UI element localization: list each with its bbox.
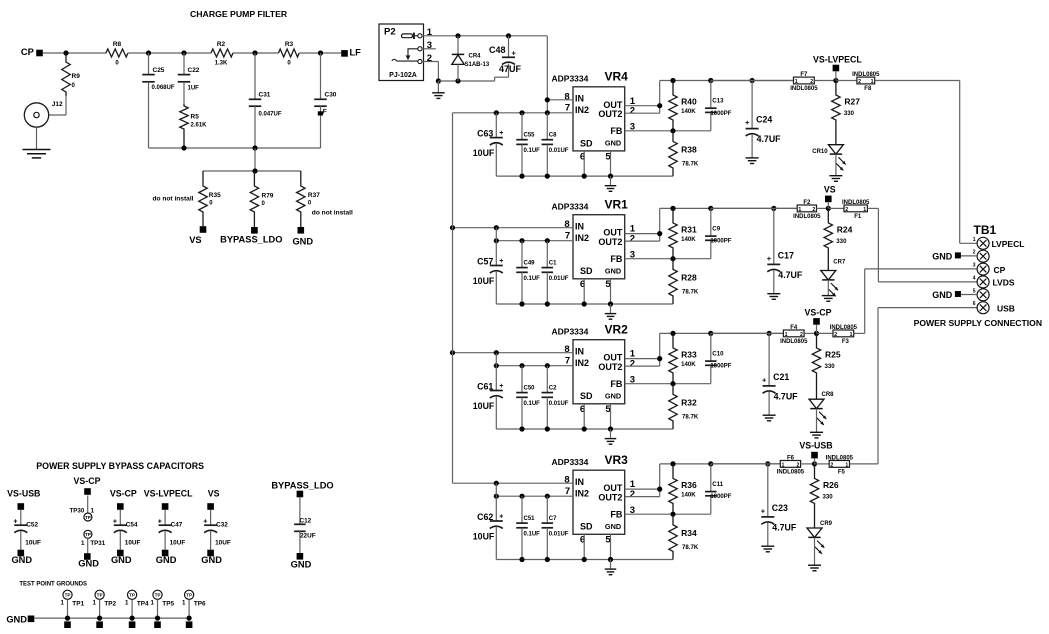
- net GND flag: [298, 227, 305, 234]
- svg-text:SD: SD: [580, 266, 593, 276]
- svg-text:USB: USB: [997, 304, 1015, 314]
- node rail C21: [767, 331, 772, 336]
- svg-text:10UF: 10UF: [25, 539, 41, 546]
- node FB junction: [670, 256, 675, 261]
- svg-text:TP1: TP1: [72, 601, 84, 608]
- svg-text:GND: GND: [201, 555, 222, 565]
- svg-text:R26: R26: [823, 480, 839, 490]
- wire VR1 FB: [625, 258, 711, 260]
- wire VR1 output rail: [660, 207, 798, 209]
- inductor F8 INDL0805: [857, 77, 875, 84]
- svg-text:2: 2: [858, 79, 861, 85]
- svg-text:1: 1: [782, 463, 785, 469]
- wire VR4 IN2 pin7: [453, 112, 574, 114]
- svg-text:C61: C61: [477, 381, 493, 391]
- wire VR2 FB: [625, 383, 711, 385]
- svg-text:2: 2: [830, 463, 833, 469]
- svg-text:C49: C49: [524, 260, 536, 266]
- svg-text:330: 330: [825, 363, 836, 370]
- wire P2 pin1 to C48 node: [422, 35, 547, 37]
- node rail C51: [519, 557, 524, 562]
- resistor R36 140K: [669, 464, 677, 514]
- svg-text:1: 1: [850, 332, 853, 338]
- svg-text:+: +: [158, 519, 162, 526]
- svg-text:0.047UF: 0.047UF: [259, 112, 282, 118]
- terminal square TP4: [129, 621, 136, 628]
- svg-text:GND: GND: [78, 559, 99, 569]
- capacitor C7 0.01UF: [546, 496, 548, 523]
- svg-text:1: 1: [182, 599, 186, 606]
- net BYPASS_LDO flag: [251, 227, 258, 234]
- resistor R8: [106, 49, 128, 57]
- capacitor C2 0.01UF: [546, 366, 548, 393]
- resistor R27 330: [832, 81, 840, 145]
- wire VR4 OUT pins to rail: [625, 105, 660, 107]
- svg-text:0.01UF: 0.01UF: [549, 401, 569, 407]
- capacitor C21 4.7UF: [768, 333, 770, 386]
- svg-text:INDL0805: INDL0805: [852, 72, 880, 78]
- node VR2 IN2 junction 3: [545, 363, 550, 368]
- svg-text:2: 2: [845, 207, 848, 213]
- svg-text:C31: C31: [259, 92, 271, 99]
- svg-text:GND: GND: [6, 615, 27, 625]
- capacitor C54 10UF: [119, 510, 121, 525]
- svg-text:5: 5: [973, 288, 976, 294]
- svg-text:7: 7: [565, 486, 570, 497]
- resistor R32 78.7K: [669, 384, 677, 429]
- node rail C50: [519, 426, 524, 431]
- wire F6 to VS node: [801, 463, 815, 465]
- net flag GND C52: [20, 531, 22, 550]
- resistor R28 78.7K: [669, 259, 677, 304]
- node at R9 top: [63, 50, 68, 55]
- wire VS node to F8: [836, 80, 857, 82]
- svg-text:GND: GND: [291, 560, 312, 570]
- svg-text:0.1UF: 0.1UF: [524, 276, 541, 282]
- node VR3 IN2 junction 3: [545, 494, 550, 499]
- svg-text:1: 1: [125, 599, 129, 606]
- node VR2 IN cap junction: [494, 350, 499, 355]
- node CR4 bottom: [455, 78, 460, 83]
- svg-text:+: +: [761, 506, 766, 515]
- svg-text:R5: R5: [191, 114, 200, 121]
- node VS VR4: [833, 78, 838, 83]
- svg-text:R31: R31: [681, 224, 697, 234]
- svg-text:BYPASS_LDO: BYPASS_LDO: [220, 234, 282, 244]
- test point TP1: [63, 590, 72, 599]
- node rail C49: [519, 301, 524, 306]
- TB1 pin 4 terminal: [977, 276, 989, 288]
- capacitor C61 10UF: [495, 353, 497, 391]
- capacitor C52 10UF: [20, 510, 22, 525]
- wire F2 to VS node: [817, 207, 829, 209]
- wire R3 to LF: [299, 52, 341, 54]
- svg-text:BYPASS_LDO: BYPASS_LDO: [271, 481, 333, 491]
- node VR1 IN2 junction 2: [519, 238, 524, 243]
- svg-text:1: 1: [973, 237, 976, 243]
- svg-text:2: 2: [973, 250, 976, 256]
- node C48 top: [506, 33, 511, 38]
- svg-text:INDL0805: INDL0805: [780, 339, 808, 345]
- svg-text:R37: R37: [308, 192, 320, 199]
- node rail C7: [545, 557, 550, 562]
- terminal square TP6: [186, 621, 193, 628]
- svg-text:C22: C22: [188, 67, 200, 74]
- svg-text:10UF: 10UF: [170, 539, 186, 546]
- node FB junction: [670, 128, 675, 133]
- node VR2 IN2 junction 1: [494, 363, 499, 368]
- capacitor C23 4.7UF: [767, 464, 769, 517]
- svg-text:C10: C10: [712, 350, 724, 357]
- capacitor C11 1000PF: [710, 464, 712, 492]
- node rail C24: [750, 78, 755, 83]
- node rail R36: [670, 461, 675, 466]
- svg-text:do not install: do not install: [152, 196, 193, 203]
- svg-text:GND: GND: [292, 236, 313, 246]
- svg-text:S1AB-13: S1AB-13: [465, 62, 490, 68]
- wire filter bottom rail: [149, 147, 321, 149]
- svg-text:CR4: CR4: [469, 54, 482, 60]
- inductor F7 INDL0805: [794, 77, 815, 84]
- svg-text:IN: IN: [575, 94, 584, 104]
- inductor F4 INDL0805: [783, 330, 804, 337]
- svg-text:C52: C52: [26, 522, 38, 529]
- svg-text:78.7K: 78.7K: [682, 288, 699, 295]
- node rail R40: [670, 78, 675, 83]
- LED CR7: [821, 271, 836, 280]
- svg-text:SD: SD: [580, 391, 593, 401]
- svg-text:C17: C17: [778, 250, 794, 260]
- node rail C17: [771, 206, 776, 211]
- net VS flag: [200, 226, 207, 233]
- svg-text:+: +: [203, 519, 207, 526]
- P2 pin 3 switch contact: [418, 47, 422, 51]
- ground of VR3: [610, 560, 612, 569]
- resistor R35: [199, 171, 207, 226]
- svg-text:10UF: 10UF: [473, 276, 495, 286]
- svg-text:IN2: IN2: [575, 358, 589, 368]
- svg-text:8: 8: [564, 475, 569, 486]
- svg-text:INDL0805: INDL0805: [777, 469, 805, 475]
- svg-text:1: 1: [795, 79, 798, 85]
- svg-text:0.1UF: 0.1UF: [524, 148, 541, 154]
- test point TP5: [153, 590, 162, 599]
- svg-text:CR7: CR7: [833, 260, 846, 266]
- svg-text:R2: R2: [217, 41, 226, 48]
- svg-text:C48: C48: [489, 45, 506, 55]
- svg-text:C63: C63: [477, 129, 493, 139]
- node rail C1: [545, 301, 550, 306]
- wire VR4 FB: [625, 130, 711, 132]
- node rail C9: [708, 206, 713, 211]
- svg-text:2: 2: [630, 489, 635, 500]
- svg-text:R40: R40: [681, 97, 697, 107]
- node FB junction: [670, 512, 675, 517]
- resistor R40 140K: [669, 81, 677, 131]
- net flag GND C12: [299, 531, 301, 553]
- wire VS node to F5: [815, 463, 830, 465]
- svg-text:+: +: [13, 519, 17, 526]
- svg-text:8: 8: [564, 219, 569, 230]
- svg-text:TP: TP: [97, 593, 103, 598]
- ground of CR9: [814, 537, 816, 565]
- svg-text:GND: GND: [605, 266, 621, 275]
- svg-text:OUT2: OUT2: [598, 362, 622, 372]
- node rail pin5: [608, 557, 613, 562]
- svg-text:ADP3334: ADP3334: [552, 457, 589, 467]
- node VR3 IN2 junction 2: [519, 494, 524, 499]
- capacitor C50 0.1UF: [521, 366, 523, 393]
- svg-text:1: 1: [785, 332, 788, 338]
- capacitor C57 10UF: [495, 228, 497, 266]
- svg-text:TP: TP: [85, 515, 91, 520]
- svg-text:F6: F6: [787, 455, 795, 461]
- svg-text:LVPECL: LVPECL: [992, 239, 1025, 249]
- svg-text:2: 2: [797, 463, 800, 469]
- wire VR2 ground rail: [496, 428, 673, 430]
- node VR4 IN2 C63: [494, 110, 499, 115]
- node rail pin6: [582, 301, 587, 306]
- svg-text:78.7K: 78.7K: [682, 413, 699, 420]
- resistor R9: [62, 53, 70, 96]
- wire R8 to R2: [128, 52, 211, 54]
- wire rail to F4: [711, 332, 784, 334]
- TB1 pin 2 terminal: [977, 250, 989, 262]
- node C30 top: [318, 50, 323, 55]
- node VR1 IN2 junction 1: [494, 238, 499, 243]
- node rail C2: [545, 426, 550, 431]
- wire VR1 ground rail: [496, 303, 673, 305]
- wire CP to R8: [43, 52, 106, 54]
- svg-text:R33: R33: [681, 349, 697, 359]
- TB1 pin 5 terminal: [977, 289, 989, 301]
- connector J12: [24, 103, 48, 127]
- svg-text:GND: GND: [605, 522, 621, 531]
- svg-text:2: 2: [630, 233, 635, 244]
- svg-text:F: F: [323, 109, 327, 116]
- node rail TP2: [97, 616, 102, 621]
- node VR2 OUT junction: [657, 356, 662, 361]
- svg-text:F2: F2: [803, 200, 811, 206]
- svg-text:R27: R27: [844, 97, 860, 107]
- svg-text:IN: IN: [575, 346, 584, 356]
- node VR1 IN bus junction: [450, 225, 455, 230]
- svg-text:OUT2: OUT2: [598, 109, 622, 119]
- capacitor C22 1UF: [183, 53, 185, 75]
- svg-text:7: 7: [565, 355, 570, 366]
- svg-text:TP: TP: [65, 593, 71, 598]
- node VR4 IN2 C8: [545, 110, 550, 115]
- svg-text:INDL0805: INDL0805: [830, 325, 858, 331]
- svg-text:R9: R9: [72, 73, 81, 80]
- svg-text:140K: 140K: [681, 361, 696, 368]
- resistor R33 140K: [669, 333, 677, 383]
- svg-text:C62: C62: [477, 512, 493, 522]
- svg-text:C1: C1: [549, 260, 557, 266]
- test point TP2: [95, 590, 104, 599]
- wire input supply bus vertical: [452, 113, 454, 483]
- resistor R25 330: [812, 333, 820, 399]
- svg-text:1000PF: 1000PF: [710, 111, 731, 117]
- svg-text:TP: TP: [85, 532, 91, 537]
- net flag VS-USB: [811, 452, 818, 459]
- svg-text:0.01UF: 0.01UF: [549, 148, 569, 154]
- node C31 top: [252, 50, 257, 55]
- P2 pin 1 barrel contact: [402, 34, 413, 38]
- svg-text:POWER SUPPLY CONNECTION: POWER SUPPLY CONNECTION: [914, 318, 1042, 328]
- net flag VS-LVPECL: [833, 65, 840, 72]
- svg-text:INDL0805: INDL0805: [826, 455, 854, 461]
- svg-text:VS-LVPECL: VS-LVPECL: [144, 489, 193, 499]
- svg-text:VS-USB: VS-USB: [7, 489, 40, 499]
- svg-text:TP5: TP5: [162, 601, 174, 608]
- net flag VS: [825, 196, 832, 203]
- resistor R2 1.3K: [211, 49, 233, 57]
- node rail TP5: [155, 616, 160, 621]
- svg-text:TP2: TP2: [104, 601, 116, 608]
- resistor R37: [297, 171, 305, 227]
- LED CR9: [807, 528, 822, 537]
- TB1 pin 6 terminal: [977, 302, 989, 314]
- wire bottom rail CR4 C48: [438, 80, 494, 82]
- svg-text:VS: VS: [189, 235, 201, 245]
- diode CR4 S1AB-13: [457, 36, 459, 55]
- svg-text:4.7UF: 4.7UF: [757, 134, 782, 144]
- svg-text:TEST POINT GROUNDS: TEST POINT GROUNDS: [19, 582, 87, 588]
- node rail TP6: [187, 616, 192, 621]
- capacitor C63 10UF: [495, 113, 497, 138]
- capacitor C25 0.068UF: [148, 53, 150, 75]
- svg-text:1: 1: [81, 540, 85, 547]
- wire R9 to J12: [65, 96, 67, 115]
- svg-text:F7: F7: [800, 72, 808, 78]
- wire VR2 feed to terminal block: [854, 332, 865, 334]
- svg-text:8: 8: [564, 91, 569, 102]
- svg-text:1000PF: 1000PF: [710, 364, 731, 370]
- node rail C22: [181, 145, 186, 150]
- svg-text:VR1: VR1: [605, 197, 629, 211]
- node rail C8: [545, 174, 550, 179]
- svg-text:0.068UF: 0.068UF: [152, 85, 175, 91]
- svg-text:1: 1: [91, 508, 95, 515]
- svg-text:TP: TP: [155, 593, 161, 598]
- inductor F1 INDL0805: [844, 205, 867, 212]
- node VR2 IN bus junction: [450, 350, 455, 355]
- resistor R38 78.7K: [669, 131, 677, 176]
- svg-text:TP4: TP4: [137, 601, 149, 608]
- svg-text:2: 2: [630, 358, 635, 369]
- svg-text:47UF: 47UF: [499, 64, 522, 74]
- op-amp regulator VR1 ADP3334 box: [573, 215, 625, 279]
- wire VR4 feed to terminal block: [875, 80, 960, 82]
- node rail C55: [519, 174, 524, 179]
- svg-text:7: 7: [565, 103, 570, 114]
- svg-text:10UF: 10UF: [473, 531, 495, 541]
- svg-text:22UF: 22UF: [300, 533, 316, 540]
- capacitor C48 47UF: [508, 36, 510, 58]
- wire J12 to ground: [36, 127, 38, 149]
- op-amp regulator VR2 ADP3334 box: [573, 340, 625, 404]
- svg-text:C47: C47: [171, 522, 183, 529]
- svg-text:F3: F3: [842, 339, 850, 345]
- capacitor C9 1000PF: [710, 208, 712, 236]
- svg-text:330: 330: [823, 493, 834, 500]
- svg-text:330: 330: [836, 238, 847, 245]
- svg-text:CP: CP: [994, 265, 1006, 275]
- node rail pin6: [582, 557, 587, 562]
- svg-text:+: +: [499, 514, 503, 521]
- svg-text:4.7UF: 4.7UF: [778, 270, 803, 280]
- svg-text:1: 1: [798, 207, 801, 213]
- node C25 top: [146, 50, 151, 55]
- inductor F5 INDL0805: [829, 461, 849, 468]
- terminal square TP5: [154, 621, 161, 628]
- svg-text:P2: P2: [384, 27, 396, 38]
- svg-text:+: +: [113, 519, 117, 526]
- wire VR4 ground rail: [496, 175, 673, 177]
- wire VR2 IN2 pin7: [496, 365, 573, 367]
- resistor R24 330: [824, 208, 832, 270]
- svg-text:OUT2: OUT2: [598, 493, 622, 503]
- svg-text:INDL0805: INDL0805: [842, 200, 870, 206]
- svg-text:C2: C2: [549, 385, 557, 391]
- svg-text:ADP3334: ADP3334: [552, 74, 589, 84]
- ground of C21: [768, 391, 770, 415]
- svg-text:LVDS: LVDS: [993, 278, 1015, 288]
- svg-text:C23: C23: [772, 503, 788, 513]
- LED CR10: [828, 145, 843, 154]
- capacitor C32 10UF: [210, 510, 212, 525]
- svg-text:OUT2: OUT2: [598, 237, 622, 247]
- svg-text:140K: 140K: [681, 108, 696, 115]
- svg-text:3: 3: [973, 263, 976, 269]
- capacitor C47 10UF: [164, 510, 166, 525]
- svg-text:10UF: 10UF: [215, 539, 231, 546]
- svg-text:1: 1: [93, 599, 97, 606]
- wire F7 to VS node: [814, 80, 836, 82]
- svg-text:2: 2: [800, 332, 803, 338]
- svg-text:0.01UF: 0.01UF: [549, 276, 569, 282]
- ground of CR7: [827, 280, 829, 295]
- svg-text:C11: C11: [712, 481, 723, 488]
- node rail pin5: [608, 174, 613, 179]
- svg-text:1: 1: [60, 599, 64, 606]
- svg-text:F4: F4: [790, 325, 798, 331]
- svg-text:TP: TP: [129, 593, 135, 598]
- svg-text:+: +: [499, 258, 503, 265]
- svg-text:C32: C32: [216, 522, 228, 529]
- op-amp regulator VR3 ADP3334 box: [573, 470, 625, 534]
- wire VR3 IN2 pin7: [496, 495, 573, 497]
- test point TP6: [185, 590, 194, 599]
- inductor F3 INDL0805: [833, 330, 854, 337]
- capacitor C62 10UF: [495, 483, 497, 521]
- node rail C10: [708, 331, 713, 336]
- ground of C24: [751, 134, 753, 158]
- svg-text:GND: GND: [11, 555, 32, 565]
- svg-text:PJ-102A: PJ-102A: [389, 72, 417, 79]
- svg-text:140K: 140K: [681, 236, 696, 243]
- svg-text:+: +: [767, 254, 772, 263]
- svg-text:R32: R32: [681, 397, 697, 407]
- svg-text:C30: C30: [325, 92, 337, 99]
- svg-text:F1: F1: [854, 214, 862, 220]
- svg-text:10UF: 10UF: [473, 148, 495, 158]
- net flag GND C54: [119, 531, 121, 550]
- svg-text:1.3K: 1.3K: [215, 61, 228, 67]
- wire VR3 OUT pins to rail: [625, 488, 660, 490]
- wire C48 node to VR4 input: [546, 36, 548, 113]
